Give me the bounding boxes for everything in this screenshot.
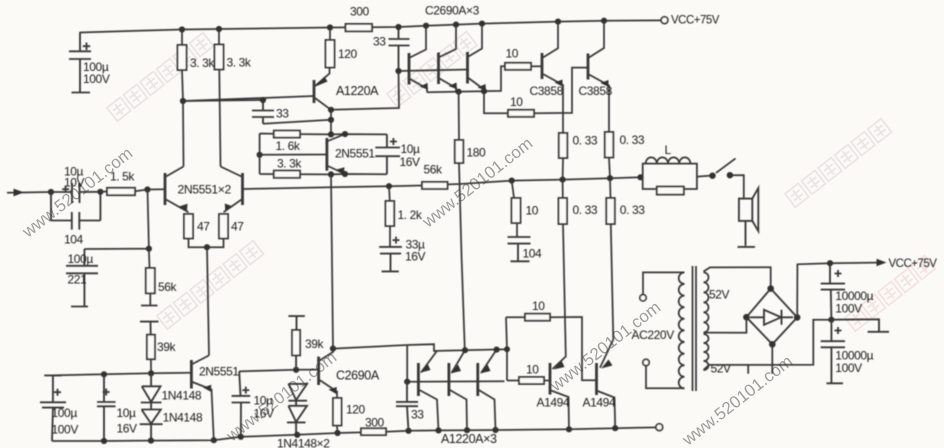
svg-text:3. 3k: 3. 3k (190, 56, 215, 70)
0V node and ground (828, 317, 834, 323)
svg-text:33: 33 (373, 35, 386, 49)
wire top VCC rail (80, 20, 661, 32)
resistor 39k (left) (147, 335, 155, 360)
transformer core (693, 266, 697, 391)
svg-text:2N5551: 2N5551 (199, 365, 239, 379)
resistor 300 (top) (346, 24, 373, 31)
transistor 2N5551 (Vbe multiplier) (327, 134, 345, 174)
wire bottom rail (52, 427, 656, 441)
svg-text:1N4148×2: 1N4148×2 (277, 437, 330, 448)
svg-text:10: 10 (526, 363, 539, 377)
input arrow (7, 191, 51, 194)
svg-text:3. 3k: 3. 3k (227, 56, 252, 70)
diode 1N4148 #2 (140, 410, 163, 441)
transistor C3858 #1 (542, 22, 563, 133)
emitter bus of C2690A drivers (427, 66, 508, 113)
resistor 180 (459, 92, 465, 350)
wire Vbe box down to lower driver (331, 174, 333, 348)
svg-text:104: 104 (523, 247, 543, 261)
svg-text:1N4148: 1N4148 (163, 411, 203, 425)
svg-text:300: 300 (350, 5, 370, 19)
bridge bottom stubs (748, 344, 772, 374)
transistor pair 2N5551 x2 (input differential) (148, 167, 244, 213)
output terminal (bottom right) (656, 424, 663, 431)
svg-text:L: L (665, 143, 672, 157)
svg-text:33: 33 (411, 408, 424, 422)
capacitor 100u/100V top-left (69, 33, 91, 93)
transformer secondary winding 52V (lower) (704, 334, 709, 370)
svg-text:221: 221 (68, 273, 88, 287)
wire bias line bottom-left (53, 373, 192, 376)
resistor 47 (left) (184, 214, 193, 239)
Vbe box: resistor 3.3k (260, 173, 387, 175)
capacitor bar + resistor 39k (right) (288, 316, 304, 370)
svg-text:10µ: 10µ (401, 142, 421, 156)
wire to A1220A base (183, 96, 314, 101)
svg-text:100µ: 100µ (52, 406, 78, 420)
wire C2690A collector to output bases (333, 344, 437, 382)
resistor 120 (top) (326, 40, 335, 68)
resistor 120 (bottom) (333, 398, 342, 426)
svg-text:1. 5k: 1. 5k (110, 170, 135, 184)
resistor 0.33 (lower #2) (600, 178, 613, 368)
svg-text:A1220A: A1220A (336, 84, 379, 98)
svg-text:C2690A: C2690A (336, 369, 380, 383)
svg-text:16V: 16V (254, 407, 275, 421)
svg-text:120: 120 (346, 403, 366, 417)
capacitor 33 (left of A1220A) (252, 100, 274, 124)
resistor 0.33 (upper #2) (605, 132, 614, 158)
wire bridge to VCC rail (797, 263, 877, 318)
svg-text:0. 33: 0. 33 (573, 203, 598, 217)
svg-text:A1494: A1494 (537, 396, 570, 410)
svg-text:120: 120 (338, 47, 358, 61)
emitter resistor junction (189, 239, 224, 356)
capacitor 10000u/100V (lower) (821, 320, 845, 384)
capacitor 33 (bottom) (396, 382, 418, 431)
resistor 0.33 (lower #1) (553, 180, 566, 369)
svg-text:VCC+75V: VCC+75V (889, 258, 938, 270)
svg-text:52V: 52V (711, 362, 732, 376)
resistor 1.2k (389, 186, 390, 247)
svg-text:C3858: C3858 (530, 84, 564, 98)
resistor 0.33 (upper #1) (559, 133, 568, 158)
svg-text:0. 33: 0. 33 (620, 203, 645, 217)
transformer primary winding (679, 272, 685, 388)
resistor 3.3k (second) (215, 45, 224, 70)
AC220V terminal (top) (640, 295, 646, 301)
svg-text:10V: 10V (64, 176, 85, 190)
resistor 10 (upper A1494 branch) (525, 314, 550, 321)
capacitor 10000u/100V (upper) (821, 263, 845, 320)
svg-text:2N5551×2: 2N5551×2 (178, 183, 232, 197)
svg-text:100V: 100V (83, 72, 110, 86)
svg-text:10µ: 10µ (117, 406, 137, 420)
Vbe box: base tap wire (260, 154, 327, 156)
resistor 300 (bottom) (361, 428, 386, 435)
bridge rectifier (746, 289, 797, 345)
capacitor 10u/10V input (51, 183, 100, 203)
svg-text:10: 10 (506, 46, 519, 60)
svg-text:100µ: 100µ (68, 252, 94, 266)
wire secondary center tap to bridge left (704, 317, 747, 333)
transistor C3858 #2 (588, 21, 609, 132)
capacitor 33u/16V (379, 237, 402, 272)
svg-text:33: 33 (276, 107, 289, 121)
transistors C2690A x3 (parallel NPN drivers) (399, 24, 485, 93)
svg-text:10: 10 (532, 299, 545, 313)
svg-text:AC220V: AC220V (632, 328, 675, 342)
Vbe multiplier box: resistor 1.6k (260, 134, 387, 175)
resistor 10 (lower A1494 branch) (519, 377, 544, 384)
wire output/feedback rail (243, 177, 643, 189)
transformer secondary winding 52V (upper) (704, 272, 709, 332)
svg-text:47: 47 (197, 220, 210, 234)
capacitor 10u/16V (lower mid) (232, 371, 251, 436)
svg-text:0. 33: 0. 33 (573, 134, 598, 148)
diode 1N4148 #1 (141, 373, 162, 409)
wire secondary top to bridge (704, 267, 771, 288)
svg-text:1. 6k: 1. 6k (276, 139, 301, 153)
svg-text:47: 47 (231, 220, 244, 234)
wire feedback node (84, 190, 148, 250)
capacitor 100u/221 (66, 249, 98, 307)
svg-text:39k: 39k (305, 337, 325, 351)
resistor 10 (lower base C3858 #2) (508, 110, 534, 117)
capacitor 104 (mid) (508, 237, 531, 261)
emitter bias bus (lower) (437, 317, 507, 380)
resistor 47 (right) (219, 214, 228, 239)
svg-text:2N5551: 2N5551 (335, 147, 375, 161)
VCC+75V terminal (top) (661, 17, 668, 24)
svg-text:A1494: A1494 (583, 396, 616, 410)
svg-text:16V: 16V (117, 422, 138, 436)
transistor 2N5551 (lower-left) (191, 356, 213, 441)
svg-text:16V: 16V (405, 250, 426, 264)
svg-text:C3858: C3858 (579, 84, 613, 98)
capacitor 10u/16V (Vbe box) (375, 134, 400, 174)
resistor 10 (mid, to 104) (512, 181, 517, 237)
wire 3.3k node to cap33 (183, 100, 263, 101)
resistor 1.5k (107, 188, 135, 195)
svg-text:0. 33: 0. 33 (620, 133, 645, 147)
svg-text:10: 10 (526, 204, 539, 218)
speaker (739, 199, 752, 221)
svg-text:56k: 56k (424, 163, 444, 177)
switch (697, 158, 744, 198)
resistor 56k (left) (149, 249, 150, 306)
diode 1N4148 #3 (288, 384, 307, 406)
transistor C2690A (lower driver) (319, 349, 337, 398)
resistor 56k (feedback) (422, 182, 448, 189)
transistor A1494 #1 (550, 363, 569, 430)
svg-text:52V: 52V (709, 288, 730, 302)
svg-text:100V: 100V (835, 361, 862, 375)
svg-text:1. 2k: 1. 2k (398, 208, 423, 222)
resistor 10 (upper base C3858 #1) (505, 63, 531, 70)
svg-text:104: 104 (64, 232, 84, 246)
transistor A1494 #2 (597, 363, 616, 428)
capacitor 33 (top) (389, 27, 410, 71)
wire secondary bottom to 0V node (704, 320, 832, 370)
svg-text:1N4148: 1N4148 (162, 389, 202, 403)
capacitor 104 input (parallel) (51, 192, 100, 230)
svg-text:100V: 100V (835, 302, 862, 316)
A1220A collector node wires (263, 71, 399, 134)
svg-text:A1220A×3: A1220A×3 (441, 432, 497, 446)
diode 1N4148 #4 (287, 406, 307, 435)
capacitor between 56k and 39k (140, 306, 159, 335)
svg-text:56k: 56k (158, 280, 178, 294)
svg-text:C2690A×3: C2690A×3 (425, 4, 480, 18)
svg-text:16V: 16V (400, 155, 421, 169)
svg-text:10µ: 10µ (254, 394, 274, 408)
transistor A1220A (313, 80, 316, 103)
resistor 3.3k (left) (178, 45, 187, 70)
inductor L with damping resistor (643, 164, 697, 189)
wire lower bias line (239, 370, 318, 372)
svg-text:100V: 100V (52, 423, 79, 437)
svg-text:300: 300 (365, 416, 385, 430)
svg-text:180: 180 (467, 146, 487, 160)
svg-text:VCC+75V: VCC+75V (671, 14, 720, 26)
svg-text:39k: 39k (157, 340, 177, 354)
capacitor 100u/100V bottom-left (40, 375, 66, 441)
svg-text:10: 10 (510, 95, 523, 109)
capacitor 10u/16V bottom-left (97, 374, 116, 441)
AC220V terminal (bottom) (643, 359, 649, 365)
transistors A1220A x3 (parallel PNP output) (407, 350, 504, 431)
svg-text:3. 3k: 3. 3k (277, 157, 302, 171)
